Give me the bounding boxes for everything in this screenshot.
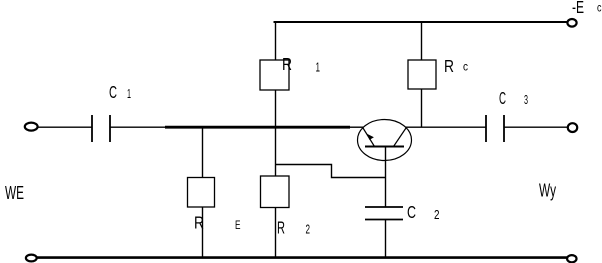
terminal output Wy (568, 123, 577, 132)
wire Rc to top rail (421, 22, 423, 60)
svg-text:C: C (109, 82, 117, 102)
svg-text:C: C (407, 202, 416, 222)
wire R2 to ground rail (275, 208, 277, 258)
wire base bus (thick) (165, 126, 350, 129)
resistor RE (188, 178, 215, 208)
transistor Q1 base bar (365, 146, 404, 148)
wire C3 to output (504, 126, 568, 128)
svg-text:E: E (235, 220, 241, 232)
terminal ground right (567, 255, 576, 262)
wire RE to ground rail (202, 207, 204, 258)
resistor Rc (408, 60, 436, 89)
wire step feedback to emitter (276, 165, 386, 178)
svg-text:R: R (282, 54, 292, 74)
wire R1 to top rail (275, 22, 277, 60)
svg-text:WE: WE (5, 182, 24, 203)
svg-text:c: c (463, 60, 468, 74)
wire input to C1 (38, 126, 92, 128)
wire bottom ground rail (36, 256, 568, 259)
wire C1 to base (thin) (110, 126, 166, 128)
capacitor C2 (365, 206, 403, 208)
svg-text:1: 1 (316, 61, 321, 75)
svg-text:1: 1 (127, 87, 131, 101)
svg-text:R: R (277, 218, 285, 238)
svg-text:3: 3 (524, 93, 528, 107)
wire top supply rail (274, 21, 569, 23)
wire emitter down to C2 (385, 147, 387, 208)
wire RE to base bus (202, 127, 204, 178)
transistor Q1 emitter arrow (367, 134, 374, 140)
svg-text:R: R (444, 56, 454, 76)
svg-text:-E: -E (572, 0, 584, 17)
wire R2 to base bus (275, 127, 277, 176)
terminal ground left (26, 255, 37, 262)
transistor Q1 body (358, 120, 412, 161)
svg-text:C: C (499, 88, 506, 108)
svg-text:2: 2 (306, 223, 311, 237)
svg-text:c: c (597, 1, 602, 15)
terminal -Ec (567, 19, 576, 27)
wire Rc to collector node (421, 89, 423, 128)
capacitor C3 (485, 115, 487, 142)
wire base bus to transistor (350, 126, 363, 128)
terminal input WE (25, 123, 38, 131)
capacitor C1 (91, 115, 93, 142)
wire C2 to ground rail (385, 220, 387, 258)
wire R1 to base node (275, 90, 277, 128)
transistor Q1 collector lead (394, 128, 407, 147)
resistor R1 (260, 60, 289, 90)
transistor Q1 emitter lead (363, 128, 375, 147)
svg-text:Wy: Wy (539, 180, 556, 201)
resistor R2 (261, 176, 290, 208)
wire collector to C3 (406, 126, 486, 128)
svg-text:2: 2 (434, 208, 440, 222)
